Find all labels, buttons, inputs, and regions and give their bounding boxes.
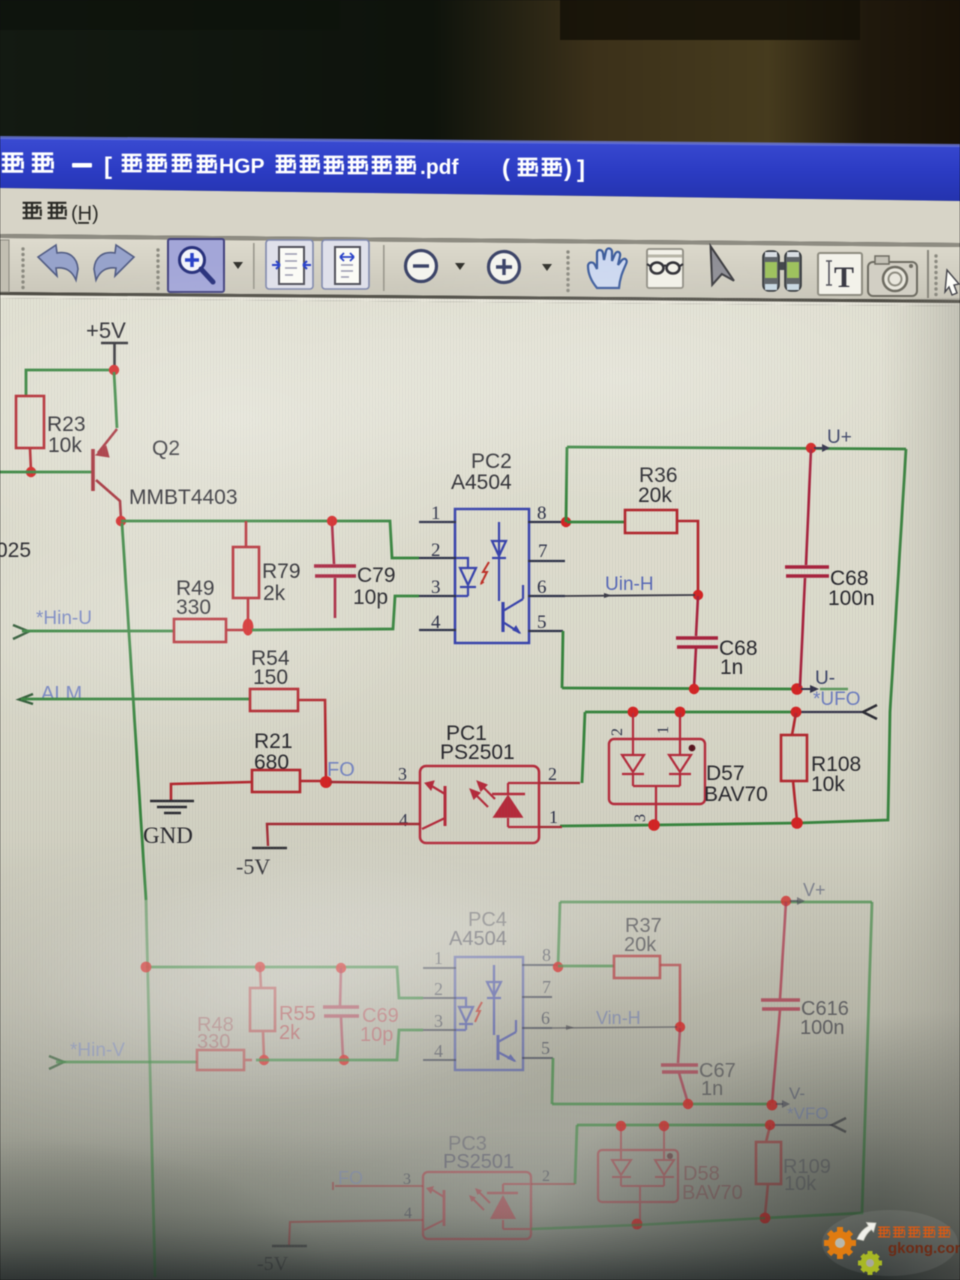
pin numbers PC2: [431, 503, 548, 633]
wire pin8 to R37: [558, 965, 614, 968]
optocoupler PC2 box: [455, 509, 529, 643]
junction R109 top: [765, 1120, 775, 1130]
undo arrow: [38, 245, 78, 280]
wire PC1 pin2 up to UFO rail: [582, 712, 585, 783]
pin 1 wire PC1: [539, 826, 562, 828]
separator: [253, 243, 255, 289]
junction R55 bottom: [259, 1055, 269, 1065]
PC4 internal LED: [456, 998, 473, 1030]
capacitor C68 1n: [696, 596, 698, 636]
svg-text:gkong.com: gkong.com: [888, 1240, 960, 1257]
junction D57 pin2: [628, 707, 639, 718]
PC3 internal LED: [487, 1192, 518, 1194]
junction R49/R79 node (double): [243, 619, 254, 636]
junction Uin-H node: [693, 590, 703, 600]
pin 2 wire PC3: [531, 1183, 575, 1185]
junction C69 top: [336, 963, 346, 973]
svg-text:.pdf: .pdf: [420, 156, 459, 179]
D58 pin2 lead: [620, 1127, 622, 1160]
wire Hin-V: [56, 1061, 197, 1064]
node *Hin-V arrow: [49, 1056, 64, 1069]
diode pair D57 BAV70 box: [609, 739, 705, 804]
optocoupler PC4 box: [455, 957, 523, 1070]
D57 pin labels rotated: [609, 726, 672, 822]
wire PC4 pin8 up to V+: [558, 902, 560, 967]
D58 diode B: [655, 1160, 674, 1186]
menu bar: [0, 188, 960, 243]
wire UFO dark tail: [799, 711, 862, 713]
junction U+: [806, 443, 816, 453]
hand tool: [588, 248, 627, 288]
wire VFO dark tail: [772, 1124, 833, 1126]
wire Hin-V node to PC4 pin3: [256, 1030, 423, 1060]
junction R55 top: [255, 962, 265, 972]
camera: [868, 262, 917, 296]
wire pin5 down: [552, 1058, 553, 1104]
zoom tool button (selected): [168, 239, 224, 292]
resistor R49: [174, 619, 226, 642]
glare highlights: [0, 260, 570, 580]
resistor R108: [792, 713, 796, 735]
pin 3 stub: [419, 595, 456, 597]
resistor R54: [250, 689, 298, 711]
schematic paper background: [0, 298, 960, 1280]
wire R54 to FO node: [298, 700, 326, 781]
select/glasses icon: [647, 249, 683, 288]
D57 pin2 lead: [632, 713, 634, 755]
power -5V symbol: [252, 847, 287, 850]
wire pin8 up to U+ rail: [566, 447, 567, 522]
wire collector rail bottom copy: [146, 967, 423, 998]
resistor R79: [245, 521, 248, 547]
PC1 internal LED: [492, 783, 539, 827]
svg-text:(: (: [502, 155, 510, 182]
wire R21 to FO junction: [300, 780, 324, 783]
PC3 light arrows: [472, 1198, 484, 1210]
V+ arrow: [790, 900, 798, 902]
D58 common join: [621, 1186, 664, 1221]
resistor R48: [197, 1050, 252, 1070]
junction PC4 pin8: [553, 962, 563, 972]
wire pin6 Uin-H line: [565, 595, 695, 596]
optocoupler PC3 box: [423, 1172, 531, 1239]
D57 common cathode join: [633, 786, 680, 822]
junction pin8 node: [561, 517, 571, 527]
wire R36 to Uin-H node: [677, 521, 698, 594]
grip 2: [156, 248, 159, 290]
junction C69 bottom: [339, 1055, 349, 1065]
bottom vignette: [530, 1010, 960, 1280]
D57 pin1 lead: [679, 713, 681, 755]
PC1 internal phototransistor: [422, 781, 445, 829]
wire pin8 to R36: [567, 521, 625, 524]
capacitor C68 100n: [806, 449, 811, 565]
svg-text:[: [: [104, 153, 112, 180]
LCD moire texture: [0, 298, 960, 1280]
node *Hin-U input arrow: [13, 625, 29, 639]
capacitor C69: [323, 968, 359, 1058]
PC2 light arrow (red): [481, 562, 489, 584]
svg-text:): ): [564, 155, 572, 182]
D57 diode B: [669, 755, 691, 786]
wire R23 bottom lead: [30, 448, 31, 471]
title bar text (pseudo CJK glyphs): [2, 154, 561, 175]
binoculars: [763, 251, 801, 291]
wire long vertical to lower circuit: [122, 523, 146, 900]
separator: [383, 245, 385, 291]
D58 diode A: [612, 1160, 631, 1186]
dark photo area above window: [0, 0, 960, 148]
capacitor C616: [761, 902, 800, 1103]
washed glare patches: [0, 825, 600, 1175]
PC4 internal photodiode: [487, 965, 501, 1035]
junction Q2 collector: [116, 516, 126, 526]
junction D58 pin1: [659, 1121, 669, 1131]
toolbar: [0, 234, 960, 247]
optocoupler PC1 box: [420, 766, 539, 843]
svg-text:HGP: HGP: [219, 155, 265, 178]
D57 diode A: [622, 755, 644, 786]
resistor R109: [756, 1126, 781, 1215]
pin 1 stub: [419, 521, 456, 523]
menu: 帮助(H): [23, 203, 67, 218]
wire UFO rail: [585, 711, 797, 714]
pin 8 stub: [528, 521, 564, 523]
orange gear: [824, 1227, 856, 1259]
power -5V symbol (bottom): [272, 1245, 307, 1247]
pin 1 bottom wire PC3 to R109 node: [531, 1218, 765, 1229]
junction D57 pin3 bottom: [648, 819, 660, 831]
pin 6 stub: [528, 595, 565, 597]
wire V+ right rail down: [765, 902, 872, 1218]
wire +5V rail to R23: [26, 370, 114, 396]
V- arrow: [776, 1103, 783, 1105]
pin 7 stub: [528, 560, 565, 562]
wire Hin-U node to PC2 pin3: [252, 596, 419, 630]
wire U- bottom rail: [562, 688, 797, 689]
junction D58 pin2: [616, 1121, 626, 1131]
wire pin6 Vin-H line: [552, 1027, 677, 1028]
pin 4 stub: [419, 629, 456, 631]
PC1 light arrows: [471, 782, 495, 807]
pin 5 stub: [528, 630, 563, 632]
wire PC3 pin4 to -5V: [289, 1220, 423, 1245]
separator + right grip: [927, 250, 929, 298]
junction Vin-H node: [675, 1022, 685, 1032]
ground symbol: [150, 801, 194, 813]
junction FO: [320, 776, 332, 788]
title bar: [0, 138, 960, 201]
wire VFO rail: [577, 1124, 770, 1127]
wire PC1 pin4 to -5V: [267, 824, 420, 846]
PC2 internal transistor: [503, 585, 523, 633]
junction C67 bottom: [683, 1099, 693, 1109]
wire V+ top rail: [560, 901, 872, 904]
中华工控网 pseudo text: [878, 1227, 950, 1237]
wire PC3 pin2 up to VFO: [575, 1125, 577, 1184]
pin 2 stub: [419, 557, 456, 559]
VFO arrow: [832, 1118, 846, 1132]
pin numbers PC4: [434, 945, 551, 1061]
junction long wire / rail: [141, 962, 152, 973]
junction D57 pin1: [675, 707, 686, 718]
resistor R37: [614, 956, 660, 978]
node ALM arrow: [19, 694, 33, 704]
wire FO to PC1 pin3: [330, 782, 420, 783]
redo arrow: [94, 245, 134, 280]
junction D58 pin3 bottom: [632, 1219, 643, 1230]
diode pair D58 BAV70 box: [598, 1127, 678, 1221]
wire ALM to R54: [21, 698, 250, 701]
left toolbar grip: [0, 240, 9, 292]
wire U- tail: [820, 688, 848, 690]
wire collector rail to PC2 pin2: [121, 521, 419, 558]
text tool: [818, 253, 862, 295]
capacitor C67: [661, 1028, 698, 1103]
zoom out: [406, 251, 437, 282]
arrow cursor: [705, 246, 738, 288]
junction at +5V: [109, 365, 119, 375]
wire Hin-U to R49: [22, 630, 174, 633]
svg-text:]: ]: [577, 156, 585, 183]
resistor R36: [625, 510, 677, 533]
junction C79 top: [327, 516, 337, 526]
pin stubs PC4: [423, 965, 557, 1060]
wire R21 to GND: [171, 782, 252, 800]
power +5V symbol: [101, 343, 128, 369]
resistor R21: [252, 770, 300, 792]
wire U+ top rail: [567, 447, 906, 449]
junction R108 bottom: [791, 817, 803, 829]
wire pin5 down to U- rail: [562, 631, 563, 688]
wire base rail: [0, 471, 92, 474]
right edge darkening: [880, 298, 960, 1280]
junction R109 bottom: [760, 1213, 771, 1224]
U+ arrow: [814, 447, 822, 449]
PC2 internal photodiode + collector line: [492, 522, 506, 601]
junction U-: [791, 683, 803, 695]
junction R23/base: [26, 467, 36, 477]
D57 polarity dot: [689, 745, 696, 752]
wire U+ right rail down to lower node: [560, 449, 906, 826]
PC4 light arrow: [475, 1002, 482, 1022]
wire R37 to Vin-H node: [660, 965, 680, 1026]
PC4 internal transistor: [498, 1020, 516, 1061]
svg-text:(H): (H): [71, 203, 99, 225]
U- arrow: [801, 688, 811, 690]
D58 pin1 lead: [663, 1127, 665, 1160]
resistor R55: [250, 967, 275, 1058]
green gear: [858, 1251, 882, 1275]
fit width button 2: [322, 240, 369, 289]
resistor R23: [16, 396, 44, 448]
junction V-: [767, 1100, 778, 1111]
junction C68 1n bottom: [689, 684, 699, 694]
junction V+: [781, 896, 791, 906]
D58 polarity dot: [667, 1153, 673, 1159]
fit page button 1: [266, 240, 313, 289]
watermark gkong logo: [822, 1210, 960, 1276]
wire PC3 pin3: [335, 1185, 423, 1187]
capacitor C79: [332, 522, 334, 564]
junction R108 top: [791, 707, 802, 718]
wire V- rail: [552, 1103, 771, 1106]
zoom in: [489, 252, 520, 283]
transistor Q2 MMBT4403: [93, 429, 121, 519]
pin 2 wire PC1: [539, 782, 580, 784]
PC3 internal phototransistor: [443, 1190, 446, 1226]
grip 3: [566, 250, 569, 292]
PC2 internal LED: [456, 558, 476, 596]
white arrow: [857, 1223, 876, 1241]
wire emitter from +5V: [114, 372, 117, 428]
UFO arrow: [863, 705, 877, 719]
